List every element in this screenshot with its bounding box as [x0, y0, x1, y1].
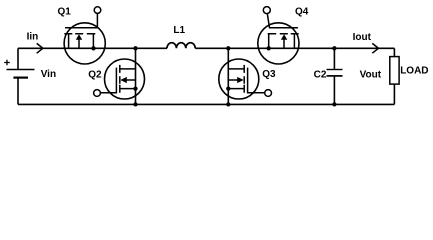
mosfet Q1 arrow (N-ch)	[76, 34, 82, 40]
svg-text:Q4: Q4	[295, 6, 309, 17]
svg-text:Vout: Vout	[360, 69, 382, 80]
Iout arrow	[372, 43, 378, 53]
wire bottom	[18, 103, 394, 105]
mosfet Q1 gate plate	[65, 14, 97, 28]
battery V1 lead bottom	[17, 78, 19, 105]
svg-text:Q3: Q3	[262, 69, 276, 80]
capacitor C2 lead top	[333, 48, 335, 69]
mosfet Q2 body circle	[105, 59, 145, 99]
mosfet Q2 channel dashes	[119, 65, 121, 93]
svg-text:Q2: Q2	[88, 70, 102, 81]
svg-text:Q1: Q1	[58, 7, 72, 18]
wire top-right	[195, 47, 394, 49]
mosfet Q4 arrow (N-ch)	[281, 34, 287, 40]
svg-text:Iin: Iin	[27, 31, 39, 42]
mosfet Q4 body circle	[258, 23, 299, 64]
svg-text:Iout: Iout	[353, 32, 372, 43]
battery V1 plate short	[13, 76, 28, 78]
junction dot Q2 source / bottom wire	[133, 102, 137, 106]
svg-text:LOAD: LOAD	[400, 66, 428, 77]
mosfet Q2 body-source dot	[133, 86, 137, 90]
Iin arrow	[37, 43, 43, 53]
svg-text:C2: C2	[314, 70, 327, 81]
mosfet Q1 source/drain/body stubs	[69, 34, 94, 49]
mosfet Q2 leads to rail	[120, 69, 136, 89]
mosfet Q3 drain-source rail	[227, 48, 229, 104]
svg-text:Vin: Vin	[41, 69, 56, 80]
mosfet Q2 gate terminal	[94, 90, 101, 97]
capacitor C2 plate bottom	[327, 75, 343, 77]
mosfet Q3 body-source dot	[226, 86, 230, 90]
junction dot Q3 drain / top wire	[226, 46, 230, 50]
junction dot Q3 source / bottom wire	[226, 102, 230, 106]
mosfet Q3 leads to rail	[228, 69, 244, 89]
battery V1 plate long	[7, 69, 35, 71]
capacitor C2 plate top	[327, 69, 343, 71]
inductor L1	[167, 43, 195, 49]
mosfet Q3 gate plate	[248, 68, 265, 93]
svg-text:L1: L1	[173, 25, 185, 36]
mosfet Q3 channel dashes	[243, 65, 245, 93]
mosfet Q4 source/drain/body stubs	[269, 34, 295, 49]
mosfet Q1 gate terminal	[94, 7, 101, 14]
junction dot C2 top	[332, 46, 336, 50]
battery plus sign	[4, 60, 10, 66]
mosfet Q1 body circle	[64, 23, 105, 64]
load lead bottom	[393, 84, 395, 104]
mosfet Q3 arrow (N-ch)	[237, 77, 244, 83]
load resistor box	[390, 57, 399, 85]
mosfet Q4 gate plate	[267, 14, 298, 28]
mosfet Q4 body-source junction dot	[267, 46, 271, 50]
battery V1 lead top	[17, 48, 19, 69]
mosfet Q1 channel dashes	[64, 33, 95, 35]
load lead top	[393, 48, 395, 56]
mosfet Q4 gate terminal	[263, 7, 270, 14]
mosfet Q2 gate plate	[100, 68, 116, 93]
mosfet Q4 channel dashes	[268, 33, 299, 35]
mosfet Q2 arrow (N-ch)	[120, 77, 127, 83]
junction dot C2 bottom	[332, 102, 336, 106]
mosfet Q3 gate terminal	[265, 90, 272, 97]
wire top-left	[18, 47, 167, 49]
mosfet Q1 body-source junction dot	[91, 46, 95, 50]
mosfet Q3 body circle	[219, 59, 259, 99]
capacitor C2 lead bottom	[333, 77, 335, 105]
mosfet Q2 drain-source rail	[135, 48, 137, 104]
junction dot Q2 drain / top wire	[133, 46, 137, 50]
